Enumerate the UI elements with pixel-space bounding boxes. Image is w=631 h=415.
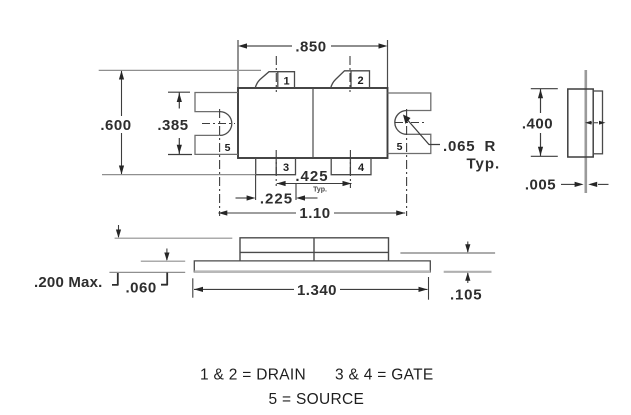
leader .065 R <box>403 115 500 173</box>
svg-text:.385: .385 <box>157 117 188 134</box>
svg-text:1.340: 1.340 <box>297 282 337 299</box>
dimension 1.10 <box>218 212 405 214</box>
side view flange edge <box>584 70 587 193</box>
svg-text:Typ.: Typ. <box>467 156 501 173</box>
svg-text:.400: .400 <box>522 116 553 133</box>
dimension .385 <box>168 92 192 154</box>
pin 1 centerline <box>275 56 277 92</box>
pin 3 centerline <box>275 150 277 186</box>
body center divider <box>312 88 314 158</box>
pin 2 centerline <box>349 56 351 92</box>
svg-text:1 & 2 = DRAIN: 1 & 2 = DRAIN <box>200 367 306 384</box>
svg-text:1: 1 <box>283 76 289 88</box>
svg-text:.200 Max.: .200 Max. <box>34 274 103 291</box>
pin 3 tab <box>256 158 296 175</box>
side view mid arrow <box>588 122 603 124</box>
svg-text:R: R <box>485 138 496 155</box>
dimension .105 <box>400 252 495 254</box>
pin 1 tab <box>255 72 294 88</box>
svg-text:3: 3 <box>283 162 289 174</box>
pin 4 tab <box>331 158 371 175</box>
dimension .200 Max <box>115 237 233 239</box>
bottom view flange <box>194 261 430 273</box>
right lead crosshair <box>395 122 425 124</box>
svg-text:Typ.: Typ. <box>313 187 327 194</box>
dimension .600 <box>99 70 261 174</box>
pin 4 centerline <box>349 150 351 188</box>
svg-text:.105: .105 <box>450 287 482 304</box>
svg-text:.425: .425 <box>295 168 328 185</box>
svg-text:.225: .225 <box>260 191 293 208</box>
dimension .425 <box>277 183 352 185</box>
svg-text:1.10: 1.10 <box>299 205 330 222</box>
svg-text:5: 5 <box>397 141 403 153</box>
svg-text:4: 4 <box>358 162 365 174</box>
dimension .850 <box>238 40 388 88</box>
left lead crosshair <box>202 123 235 125</box>
side view body rect <box>568 89 593 157</box>
dimension 1.340 <box>193 277 429 300</box>
bottom view cap <box>240 238 389 261</box>
svg-text:.005: .005 <box>525 177 556 194</box>
svg-text:5: 5 <box>225 142 231 154</box>
side view cap rect <box>593 91 602 154</box>
dimension .400 <box>531 89 558 157</box>
dimension .005 <box>561 183 609 185</box>
svg-text:5 = SOURCE: 5 = SOURCE <box>269 391 365 408</box>
source lead left (pin 5) <box>195 93 238 155</box>
pin 2 tab <box>331 71 370 88</box>
svg-text:.600: .600 <box>100 117 131 134</box>
svg-text:.850: .850 <box>295 39 326 56</box>
source lead right (pin 5) <box>388 93 431 154</box>
svg-text:2: 2 <box>357 75 363 87</box>
package body <box>238 88 388 158</box>
svg-text:3 & 4 = GATE: 3 & 4 = GATE <box>335 367 434 384</box>
dimension .225 <box>236 175 318 200</box>
svg-text:.060: .060 <box>126 280 157 297</box>
svg-text:.065: .065 <box>443 138 475 155</box>
dimension .060 <box>141 260 185 262</box>
